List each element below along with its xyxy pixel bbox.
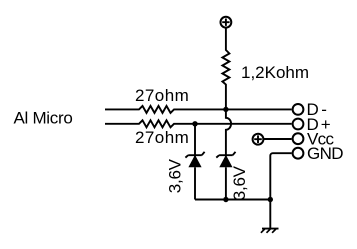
svg-text:27ohm: 27ohm — [135, 128, 189, 147]
svg-text:3,6V: 3,6V — [230, 165, 249, 200]
svg-text:GND: GND — [307, 144, 343, 163]
svg-text:3,6V: 3,6V — [166, 158, 185, 193]
svg-text:27ohm: 27ohm — [135, 86, 189, 105]
svg-text:1,2Kohm: 1,2Kohm — [241, 63, 309, 82]
svg-text:Al Micro: Al Micro — [14, 109, 73, 128]
